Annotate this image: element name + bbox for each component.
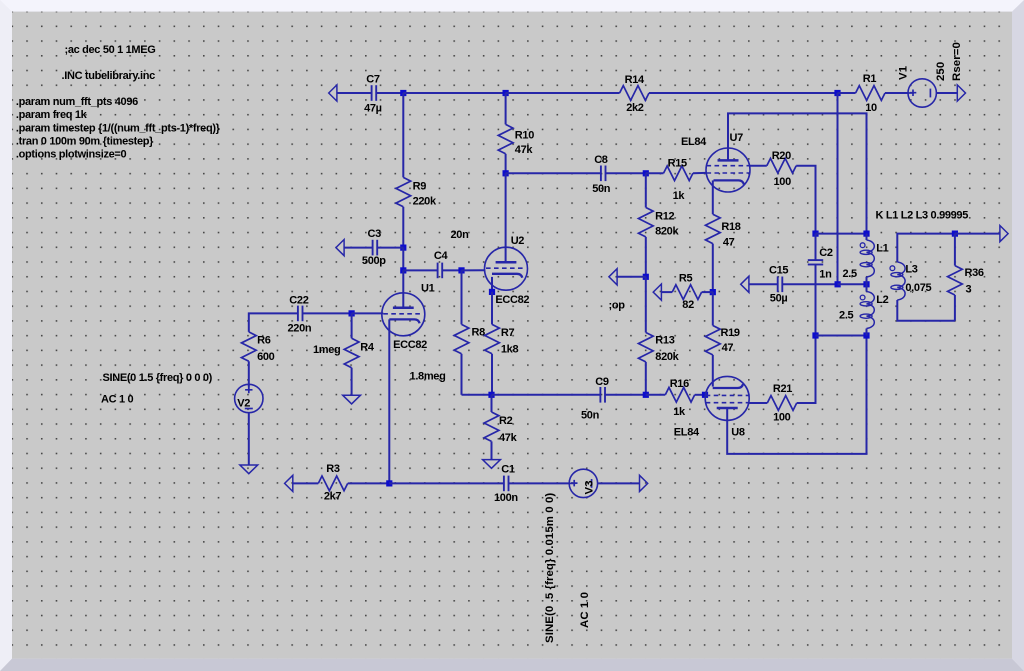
capacitor C7	[364, 74, 382, 115]
wire R1 to V1	[885, 92, 908, 94]
triode U2	[485, 235, 530, 306]
svg-text:50µ: 50µ	[770, 293, 788, 305]
resistor R3	[318, 463, 347, 503]
svg-text:C4: C4	[434, 250, 449, 262]
wire R20 to C2 top node	[796, 166, 815, 234]
svg-text:AC 1 0: AC 1 0	[101, 393, 133, 405]
wire ground to C3	[344, 247, 373, 249]
svg-text:R5: R5	[679, 272, 693, 284]
spice directive ;op	[609, 300, 626, 312]
wire U7 anode lead up and over to L1	[728, 113, 867, 233]
svg-text:1meg: 1meg	[313, 344, 340, 356]
pentode U7	[681, 132, 750, 192]
wire B+ feed down to center tap	[837, 93, 839, 284]
text SINE V2	[103, 372, 213, 384]
resistor R16	[665, 378, 694, 418]
ground symbol below R4	[343, 395, 361, 404]
wire R6 to V2	[248, 361, 250, 386]
svg-text:500p: 500p	[362, 255, 386, 267]
svg-text:EL84: EL84	[674, 427, 700, 439]
wire R13 top lead	[645, 277, 647, 333]
resistor R15	[664, 158, 693, 203]
svg-text:0,075: 0,075	[905, 282, 931, 294]
resistor R8	[454, 324, 485, 353]
svg-text:47µ: 47µ	[364, 103, 382, 115]
wire R19 to U8 cathode	[712, 355, 714, 387]
svg-text:R19: R19	[721, 327, 740, 339]
wire C3 node to U1 anode node	[402, 248, 404, 271]
svg-text:;op: ;op	[609, 300, 626, 312]
svg-text:.INC tubelibrary.inc: .INC tubelibrary.inc	[62, 70, 156, 82]
text AC V2	[101, 393, 133, 405]
svg-text:ECC82: ECC82	[495, 294, 529, 306]
svg-text:220n: 220n	[288, 322, 312, 334]
wire R10 top lead	[505, 93, 507, 124]
wire ground to C15	[749, 283, 778, 285]
svg-text:L3: L3	[905, 264, 917, 276]
wire node to U1 grid	[352, 312, 384, 314]
svg-text:C2: C2	[819, 247, 833, 259]
svg-text:2k7: 2k7	[324, 491, 342, 503]
node junction R4 top / U1 grid	[349, 310, 355, 316]
wire C3 to node	[377, 247, 403, 249]
wire center tap to L1/L2 mid	[838, 283, 867, 285]
svg-text:R15: R15	[668, 158, 687, 170]
svg-text:V2: V2	[237, 397, 250, 409]
wire R21 to C2 bottom node	[797, 336, 816, 404]
svg-text:C8: C8	[594, 154, 608, 166]
capacitor C4	[403, 229, 469, 278]
wire rail to C1	[389, 482, 504, 484]
wire U2 anode lead	[505, 173, 507, 263]
svg-text:C7: C7	[366, 74, 380, 86]
wire top rail node to R10 node	[403, 92, 505, 94]
svg-text:U7: U7	[730, 132, 744, 144]
wire C22 to R4 node	[303, 312, 352, 314]
wire R16 to U8 grid	[695, 394, 705, 396]
svg-text:L1: L1	[876, 242, 888, 254]
wire C7 to node	[376, 92, 403, 94]
svg-text:R7: R7	[501, 327, 515, 339]
wire U1 anode lead	[402, 270, 404, 307]
spice directive .INC tubelibrary.inc	[62, 70, 156, 82]
svg-text:R36: R36	[965, 267, 984, 279]
capacitor C1	[494, 464, 518, 505]
resistor R20	[767, 150, 796, 188]
inductor L1	[842, 234, 888, 285]
svg-text:47k: 47k	[515, 144, 534, 156]
capacitor C15	[769, 265, 788, 305]
node junction C4 / U2 grid / R8	[458, 267, 464, 273]
svg-text:2.5: 2.5	[839, 310, 854, 322]
wire node to R1	[838, 92, 856, 94]
node junction R10 top	[503, 90, 509, 96]
svg-text:50n: 50n	[592, 183, 611, 195]
svg-text:C9: C9	[595, 376, 609, 388]
node junction C3/anode column	[400, 245, 406, 251]
svg-text:U1: U1	[421, 282, 435, 294]
wire L3 bottom	[897, 300, 955, 321]
node junction L1 top	[863, 231, 869, 237]
svg-text:2k2: 2k2	[626, 102, 644, 114]
node junction L1/L2 mid	[863, 281, 869, 287]
svg-text:100n: 100n	[494, 492, 518, 504]
svg-text:47k: 47k	[499, 432, 518, 444]
resistor R21	[767, 383, 796, 424]
node junction B+ feed	[834, 90, 840, 96]
ground flag left of C7	[329, 85, 337, 101]
svg-text:.param num_fft_pts 4096: .param num_fft_pts 4096	[16, 96, 138, 108]
svg-text:.tran 0 100m 90m {timestep}: .tran 0 100m 90m {timestep}	[16, 136, 154, 148]
svg-text:R8: R8	[472, 326, 486, 338]
resistor R10	[498, 124, 534, 155]
wire R10 to U2 anode node	[505, 154, 507, 174]
svg-text:R20: R20	[772, 150, 791, 162]
svg-text:R9: R9	[413, 180, 427, 192]
ground flag right of V3	[640, 475, 648, 491]
svg-text:R2: R2	[499, 415, 513, 427]
svg-text:10: 10	[865, 102, 877, 114]
wire U7 cathode to R18	[712, 180, 714, 214]
resistor R14	[620, 74, 649, 114]
svg-text:2.5: 2.5	[842, 268, 857, 280]
wire R14 to B+ node	[649, 92, 838, 94]
svg-text:R10: R10	[515, 129, 534, 141]
node junction U1 cathode / rail	[386, 480, 392, 486]
wire node to R14	[506, 92, 620, 94]
resistor R12	[638, 208, 679, 238]
capacitor C8	[592, 154, 611, 195]
voltage source V1	[898, 42, 964, 107]
ground flag left of C15	[741, 276, 749, 292]
wire R2 top lead	[491, 395, 493, 412]
node junction R18/R5/R19	[710, 289, 716, 295]
svg-text:250: 250	[935, 62, 947, 81]
svg-text:R3: R3	[326, 463, 340, 475]
wire C2 top node to L1 top	[816, 233, 867, 235]
text AC V3	[579, 592, 591, 628]
wire R8 corner to R7 node	[462, 394, 492, 396]
wire R9 to C3 node	[402, 207, 404, 248]
svg-text:AC 1 0: AC 1 0	[579, 592, 591, 628]
phase dot L3	[890, 266, 895, 271]
svg-text:ECC82: ECC82	[393, 339, 427, 351]
ground flag left of C3	[336, 240, 344, 256]
wire R18 to bias node	[712, 244, 714, 293]
node junction center tap	[835, 281, 841, 287]
wire V1 to ground flag	[936, 92, 957, 94]
svg-text:L2: L2	[876, 294, 888, 306]
capacitor C9	[581, 376, 609, 422]
wire node to R16	[646, 394, 666, 396]
svg-text:R16: R16	[670, 378, 689, 390]
wire R3 to U1 cathode node	[348, 482, 390, 484]
wire V2 to ground	[248, 413, 250, 465]
wire U8 g2 to R21	[749, 402, 767, 404]
svg-text:R14: R14	[625, 74, 645, 86]
wire R19 top lead	[712, 292, 714, 325]
wire R15 leads	[646, 172, 706, 174]
ground flag left of R12 node	[609, 269, 617, 285]
wire R13 bottom lead	[645, 362, 647, 395]
wire U7 g2 to R20	[750, 165, 767, 167]
wire C22 left to R6	[249, 313, 298, 332]
ground flag right of V1	[957, 85, 965, 101]
wire C15 to center tap node	[782, 283, 837, 285]
resistor R36	[948, 234, 984, 321]
triode U1	[382, 282, 435, 350]
svg-text:R13: R13	[655, 334, 674, 346]
svg-text:820k: 820k	[655, 351, 679, 363]
node junction C2 top	[812, 231, 818, 237]
wire U2 cathode lead	[491, 277, 493, 292]
resistor R2	[484, 412, 517, 444]
wire ground to R5	[661, 291, 672, 293]
svg-text:C1: C1	[501, 464, 515, 476]
svg-text:U8: U8	[731, 427, 745, 439]
svg-text:C15: C15	[769, 265, 788, 277]
wire C9 to R13 node	[605, 394, 646, 396]
node junction U2 anode / C8	[503, 170, 509, 176]
node junction U8 grid pin	[702, 392, 708, 398]
wire C2 bottom node to L2 bottom	[816, 335, 867, 337]
wire U2 anode node to C8	[506, 172, 601, 174]
inductor L2	[839, 284, 889, 335]
svg-text:820k: 820k	[655, 226, 679, 238]
ground symbol below V2	[240, 465, 258, 474]
resistor R18	[705, 214, 740, 248]
svg-text:R18: R18	[721, 221, 740, 233]
svg-text:50n: 50n	[581, 410, 600, 422]
text 1.8meg value of R8	[410, 370, 446, 382]
svg-text:V1: V1	[898, 65, 910, 80]
wire U2 grid to C4 node	[462, 269, 485, 271]
resistor R4	[313, 313, 375, 395]
node junction C9/R13/R16	[643, 392, 649, 398]
svg-text:K L1 L2 L3 0.99995: K L1 L2 L3 0.99995	[876, 210, 969, 222]
node junction R7/R2/rail	[488, 392, 494, 398]
svg-text:20n: 20n	[451, 229, 470, 241]
svg-text:SINE(0 1.5 {freq} 0 0 0): SINE(0 1.5 {freq} 0 0 0)	[103, 372, 213, 384]
node junction U1 anode / C4	[400, 267, 406, 273]
capacitor C2	[808, 234, 833, 336]
node junction C8 / R12 / R15	[643, 170, 649, 176]
svg-text:EL84: EL84	[681, 136, 707, 148]
svg-text:1k: 1k	[673, 406, 686, 418]
resistor R9	[396, 177, 437, 207]
wire R12 bottom lead	[645, 237, 647, 277]
wire ground to R3	[293, 482, 319, 484]
svg-text:;ac dec 50 1 1MEG: ;ac dec 50 1 1MEG	[65, 44, 156, 56]
ground flag secondary out	[1000, 226, 1008, 242]
svg-text:1k8: 1k8	[501, 343, 519, 355]
wire secondary out	[955, 233, 1000, 235]
wire node down to R9	[402, 93, 404, 177]
wire U1 cathode lead down	[388, 319, 390, 483]
wire R7 bottom lead	[491, 354, 493, 395]
svg-text:82: 82	[682, 299, 694, 311]
resistor R13	[638, 333, 679, 363]
text SINE V3	[544, 493, 556, 643]
resistor R5	[672, 272, 701, 311]
voltage source V3	[569, 469, 597, 497]
svg-text:220k: 220k	[413, 196, 437, 208]
wire V3 to ground flag	[598, 482, 640, 484]
wire R12 top lead	[645, 173, 647, 207]
pentode U8	[674, 376, 749, 438]
node junction C7/R9	[400, 90, 406, 96]
svg-text:1n: 1n	[819, 269, 832, 281]
resistor R7	[485, 292, 519, 355]
capacitor C3	[362, 228, 386, 267]
svg-text:R4: R4	[360, 342, 375, 354]
K coupling statement	[876, 210, 969, 222]
svg-text:1k: 1k	[673, 190, 686, 202]
wire R8 bottom to rail	[461, 354, 463, 395]
ground flag left of R5	[653, 284, 661, 300]
wire C1 to V3	[509, 482, 570, 484]
wire ground to C7	[337, 92, 372, 94]
svg-text:100: 100	[773, 412, 791, 424]
svg-text:U2: U2	[511, 235, 525, 247]
ground flag left of R3	[285, 475, 293, 491]
spice directive ;ac dec 50 1 1MEG	[65, 44, 156, 56]
svg-text:Rser=0: Rser=0	[951, 42, 963, 81]
resistor R19	[705, 326, 739, 355]
svg-text:V3: V3	[584, 480, 596, 494]
svg-text:.param timestep {1/((num_fft_p: .param timestep {1/((num_fft_pts-1)*freq…	[16, 123, 221, 135]
wire C8 to R12 node	[606, 172, 646, 174]
svg-text:R1: R1	[863, 73, 877, 85]
svg-text:SINE(0 .5 {freq} 0.015m 0 0): SINE(0 .5 {freq} 0.015m 0 0)	[544, 493, 556, 643]
spice directive .param block	[16, 96, 221, 161]
svg-text:3: 3	[966, 283, 972, 295]
svg-text:.options plotwinsize=0: .options plotwinsize=0	[16, 149, 127, 161]
resistor R6	[241, 332, 274, 363]
node junction U2 cathode / R7	[489, 289, 495, 295]
phase dot L2	[860, 295, 865, 300]
resistor R1	[856, 73, 885, 114]
svg-text:47: 47	[723, 236, 735, 248]
svg-text:R21: R21	[773, 383, 792, 395]
svg-text:R6: R6	[257, 334, 271, 346]
node junction L2 bottom	[863, 332, 869, 338]
node junction R12/R13/ground	[643, 274, 649, 280]
capacitor C22	[288, 295, 312, 335]
wire U8 anode lead down and over to L2	[727, 336, 866, 454]
wire R8 top lead	[461, 270, 463, 324]
voltage source V2	[235, 384, 263, 412]
svg-text:C22: C22	[289, 295, 308, 307]
node junction R36 top	[952, 231, 958, 237]
wire L3 top	[897, 234, 955, 262]
svg-text:47: 47	[722, 342, 734, 354]
wire R2 to ground	[491, 441, 493, 459]
phase dot L1	[860, 243, 865, 248]
node junction C2 bottom	[812, 332, 818, 338]
svg-text:.param freq 1k: .param freq 1k	[16, 109, 88, 121]
svg-text:C3: C3	[367, 228, 381, 240]
inductor L3	[891, 262, 932, 300]
svg-text:R12: R12	[655, 211, 674, 223]
svg-text:600: 600	[257, 351, 275, 363]
wire ground to R12 node	[617, 276, 646, 278]
ground symbol below R2	[483, 460, 501, 469]
svg-text:1.8meg: 1.8meg	[410, 370, 446, 382]
wire rail to C9	[492, 394, 601, 396]
wire R5 to bias node	[702, 291, 713, 293]
svg-text:100: 100	[774, 176, 792, 188]
